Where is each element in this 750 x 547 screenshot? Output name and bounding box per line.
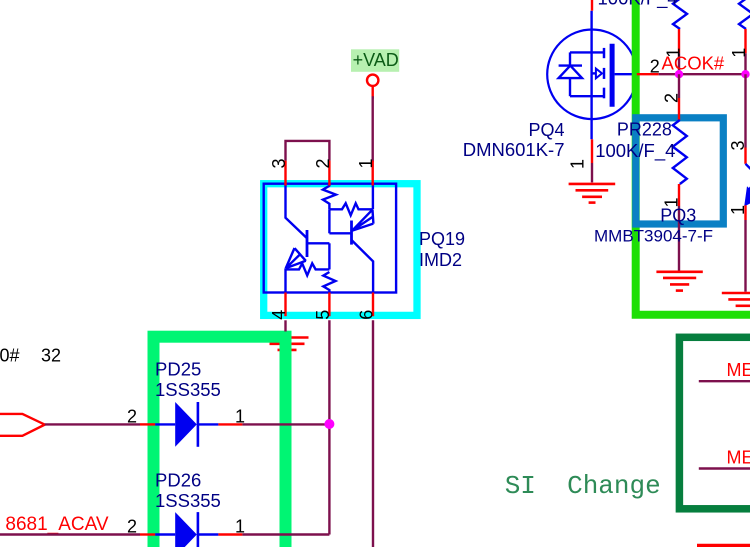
ground (red) below PQ3 right [722,293,750,306]
diode PD26 (1SS355) [140,512,242,547]
highlight box (steel blue) around PR228 [636,118,724,224]
junction dot (magenta) at PD25/pin5 [324,419,334,429]
transistor PQ3 (partial, right edge) [744,74,750,292]
wire +VAD to PQ19 pin1 [372,86,374,160]
svg-text:0#: 0# [0,346,20,366]
svg-text:4: 4 [269,310,289,320]
label PQ3 / MMBT3904-7-F [594,206,713,246]
highlight box (cyan) around PQ19 [264,184,417,316]
net label ME... (row 1) [699,360,750,381]
label PQ19 / IMD2 [419,229,465,270]
svg-text:32: 32 [41,346,61,366]
svg-text:ME: ME [727,360,750,380]
svg-text:1: 1 [729,48,749,58]
wire port to PD25 [45,423,140,425]
off-page connector (left, PD25 input) [0,414,45,436]
svg-text:100K/F_4: 100K/F_4 [595,140,675,162]
svg-text:PD26: PD26 [155,470,201,491]
pin stubs PQ19 top (pins 3,2,1) [286,161,373,186]
svg-text:2: 2 [650,56,660,76]
svg-text:2: 2 [313,158,333,168]
pin stub PQ4 drain (top) [591,0,593,11]
junction dot (magenta) ACOK#/R_B [741,70,749,78]
resistor R_B (cut at top right) [739,0,750,74]
svg-text:1: 1 [356,158,376,168]
svg-text:ACOK#: ACOK# [662,53,725,74]
ground (red) below PQ4 [569,184,616,203]
svg-text:6: 6 [357,310,377,320]
svg-text:ME: ME [727,447,750,467]
svg-text:1: 1 [728,205,748,215]
label PD25 / 1SS355 [155,358,221,400]
wire ACOK# net (horizontal) [637,73,747,75]
svg-text:1SS355: 1SS355 [155,490,221,511]
junction dot (magenta) ACOK#/PR228 [675,70,683,78]
svg-text:MMBT3904-7-F: MMBT3904-7-F [594,227,713,246]
bus highlight line (green) [636,0,750,315]
svg-text:PD25: PD25 [155,358,201,379]
wire pin6 down to edge [372,320,374,547]
svg-text:3: 3 [269,158,289,168]
svg-text:IMD2: IMD2 [419,250,462,270]
transistor PQ19 element B (lower left, pre-biased) [286,185,336,293]
svg-text:1: 1 [235,406,245,426]
resistor PR228 (100K/F_4) [673,74,687,271]
highlight box (green) around PD25/PD26 [154,337,286,547]
wire PD26 cathode to pin5 riser [242,533,329,535]
svg-text:2: 2 [127,406,137,426]
svg-text:PQ4: PQ4 [528,120,564,140]
wire PD25 cathode to junction [242,423,329,425]
wire PQ4 source to ground [591,163,593,182]
svg-text:1: 1 [568,159,588,169]
svg-text:1SS355: 1SS355 [155,379,221,400]
power symbol +VAD [351,49,399,86]
svg-text:8681_ACAV: 8681_ACAV [5,514,108,535]
ground (red, PD group under green box) [266,338,309,356]
svg-text:PR228: PR228 [617,120,672,140]
net label ME... (row 2) [699,447,750,468]
ground (red) below PR228 [656,272,702,291]
svg-text:2: 2 [127,517,137,537]
resistor R_A (100K/F_4, cut at top) [673,0,687,74]
svg-text:DMN601K-7: DMN601K-7 [463,139,565,160]
svg-text:PQ19: PQ19 [419,229,465,249]
transistor PQ19 element A (upper right, pre-biased) [323,185,374,293]
pin stub PQ4 source (pin 1) [591,139,593,163]
svg-text:PQ3: PQ3 [660,206,696,226]
label PQ4 / DMN601K-7 [463,120,565,160]
svg-text:5: 5 [313,310,333,320]
diode PD25 (1SS355) [140,402,242,447]
label PD26 / 1SS355 [155,470,221,512]
svg-text:SI Change: SI Change [505,471,661,501]
svg-text:3: 3 [728,140,748,150]
component body PQ19 inner rectangle [264,184,396,293]
transistor PQ4 (DMN601K-7 MOSFET) [547,11,637,140]
wire pin4 to ground [284,320,286,331]
svg-text:1: 1 [235,517,245,537]
label PR228 / 100K/F_4 [595,120,675,163]
pin stubs PQ19 bottom (pins 4,5,6) [286,293,374,317]
red bar (bottom edge, cut) [697,544,750,547]
wire 8681_ACAV to PD26 [0,533,140,535]
svg-text:100K/F_4: 100K/F_4 [598,0,678,10]
svg-text:+VAD: +VAD [353,50,399,70]
svg-text:2: 2 [662,93,682,103]
wire pin5 down to PD junction and PD26 corner [328,320,330,534]
net label 0# 32 [0,346,61,366]
wire loop pin3 to pin2 [286,141,330,161]
highlight box (dark green) lower right [679,337,750,509]
